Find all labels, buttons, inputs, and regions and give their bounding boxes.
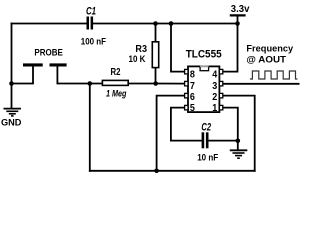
wire bottom rail — [90, 170, 255, 172]
svg-text:6: 6 — [190, 92, 195, 103]
svg-text:100 nF: 100 nF — [81, 37, 106, 47]
resistor R3 — [129, 42, 159, 68]
svg-text:3: 3 — [212, 81, 217, 92]
capacitor C1 — [81, 6, 106, 47]
wire left loop vertical — [89, 84, 91, 171]
wire right ground stem — [237, 141, 239, 150]
op-amp/timer IC U1 TLC555 body — [186, 48, 222, 112]
wire pin1 to ground node — [223, 108, 237, 141]
svg-text:3.3v: 3.3v — [231, 4, 250, 15]
wire R2 right lead — [128, 83, 156, 85]
wire probe left pad to rail — [12, 83, 34, 85]
wire pin8 riser — [171, 24, 185, 72]
pin stub 1 — [219, 105, 222, 110]
svg-text:C2: C2 — [201, 121, 211, 133]
pin stub 4 — [219, 69, 222, 74]
svg-text:GND: GND — [1, 117, 22, 128]
resistor R2 — [102, 67, 128, 98]
wire probe right pad to R2 — [57, 83, 103, 85]
svg-text:7: 7 — [190, 81, 195, 92]
svg-text:C1: C1 — [86, 6, 96, 18]
square wave symbol — [250, 71, 298, 79]
svg-text:10 K: 10 K — [129, 54, 146, 64]
wire R3 bottom lead — [155, 68, 157, 84]
wire pin3 output — [223, 83, 298, 85]
node R2 R3 pin7 — [153, 81, 158, 86]
wire R3 top lead — [155, 24, 157, 43]
wire 3.3v stem — [237, 15, 239, 23]
wire pin4 riser to 3.3v — [223, 24, 237, 72]
svg-text:PROBE: PROBE — [34, 48, 63, 58]
wire C2 right lead — [208, 140, 238, 142]
node C2 / pin1 / ground — [236, 139, 241, 144]
ground (right, near C2) — [230, 150, 248, 158]
pin stub 5 — [185, 105, 188, 110]
node top rail / pin8 riser — [169, 21, 174, 26]
3.3v supply — [230, 4, 250, 15]
node 3.3v — [235, 21, 240, 26]
node top rail / R3 — [153, 21, 158, 26]
svg-text:10 nF: 10 nF — [197, 152, 218, 162]
node left rail / probe — [9, 81, 14, 86]
svg-text:Frequency: Frequency — [246, 43, 294, 53]
svg-text:1: 1 — [212, 103, 217, 114]
wire pin6 to bottom rail — [157, 96, 185, 171]
wire top rail left of C1 — [12, 23, 88, 25]
wire pin2 to bottom rail — [223, 96, 254, 171]
pin stub 8 — [185, 69, 188, 74]
pin stub 3 — [219, 81, 222, 86]
IC notch — [200, 66, 209, 70]
pin stub 2 — [219, 93, 222, 98]
svg-text:5: 5 — [190, 103, 195, 114]
node bottom rail / pin6 — [154, 169, 159, 174]
wire pin7 — [156, 83, 185, 85]
svg-text:8: 8 — [190, 70, 195, 81]
ground (left) — [4, 109, 22, 116]
node probe / bottom loop — [88, 81, 93, 86]
wire left rail — [11, 24, 13, 109]
svg-text:4: 4 — [212, 70, 217, 81]
svg-text:TLC555: TLC555 — [186, 48, 222, 60]
svg-text:1 Meg: 1 Meg — [106, 88, 127, 98]
pin stub 6 — [185, 93, 188, 98]
Frequency @ AOUT label — [246, 43, 294, 64]
wire pin5 to C2 — [171, 108, 202, 141]
svg-text:R2: R2 — [111, 67, 121, 78]
svg-text:2: 2 — [212, 92, 217, 103]
probe pads — [23, 48, 67, 84]
svg-text:@ AOUT: @ AOUT — [246, 55, 286, 65]
wire top rail right of C1 — [93, 23, 238, 25]
capacitor C2 — [197, 121, 218, 162]
pin stub 7 — [185, 81, 188, 86]
